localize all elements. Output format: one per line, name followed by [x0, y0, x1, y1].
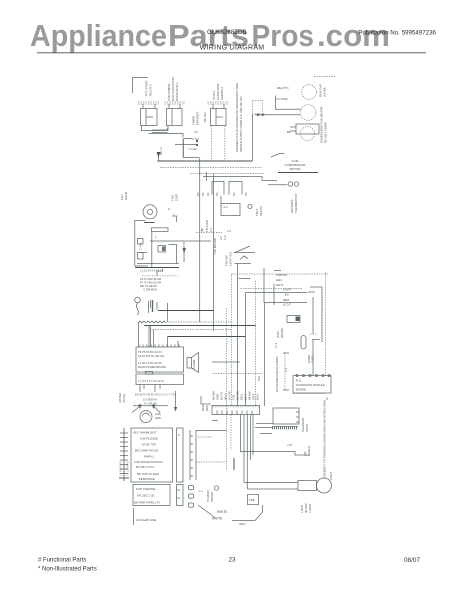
speaker label [192, 359, 196, 369]
svg-text:FOR TRE PRE: FOR TRE PRE [136, 487, 155, 491]
pin stubs [149, 300, 168, 322]
svg-text:Publication No. 5995497236: Publication No. 5995497236 [358, 30, 436, 37]
pin strip right [190, 430, 196, 480]
svg-text:C OM MON: C OM MON [143, 288, 157, 292]
svg-text:EXTENDED FRESH FOOD: EXTENDED FRESH FOOD [275, 357, 279, 393]
wire drop E2 [264, 303, 266, 407]
run capacitor circle [302, 85, 317, 100]
jumper h [312, 339, 320, 341]
wire stub h [260, 433, 272, 435]
label motor cols [200, 219, 213, 232]
J4 top hatch [213, 406, 260, 408]
svg-text:MER: MER [283, 298, 289, 302]
ext board bottom dashed [293, 393, 325, 395]
dispenser bell [140, 411, 152, 423]
right small box B [273, 408, 299, 424]
wire L1 drop [158, 156, 160, 161]
bus N4 solid [203, 177, 277, 181]
svg-text:23: 23 [228, 557, 236, 564]
label run capacitor [167, 77, 179, 101]
bus N1 [158, 160, 253, 162]
label dispenser board [276, 328, 284, 338]
fan blade right [154, 406, 161, 413]
dashed pin row [142, 275, 178, 277]
wire dashed drop D1 [231, 274, 233, 406]
wire right v1 [313, 287, 322, 376]
wire dashed drop D3 [226, 308, 228, 470]
J2 frame [274, 271, 281, 306]
switch blade SW1 [271, 154, 285, 158]
defrost heater bar [152, 228, 169, 232]
svg-text:DR TH SE NS: DR TH SE NS [140, 284, 157, 288]
node arrow L1 [157, 152, 161, 157]
svg-text:RD-3: RD-3 [240, 393, 244, 400]
lower connector pins [138, 379, 164, 383]
defrost heater labels [171, 194, 179, 201]
condenser fan motor M2 [301, 127, 315, 141]
svg-text:R LL: R LL [296, 379, 302, 383]
tick fan pins [290, 126, 296, 128]
svg-text:ATC BCC CE: ATC BCC CE [137, 494, 154, 498]
svg-text:STLR TOP: STLR TOP [142, 443, 156, 447]
svg-text:FF TH SE NS OR: FF TH SE NS OR [140, 281, 161, 285]
svg-text:2-2: 2-2 [219, 236, 223, 240]
svg-text:REL PTC: REL PTC [277, 86, 289, 90]
svg-text:LED -: LED - [276, 278, 283, 282]
bus N2 dashed [160, 167, 262, 169]
svg-text:0 4: 0 4 [227, 229, 231, 233]
junction tick [206, 172, 208, 181]
label right col long 1 [323, 400, 327, 478]
wire dashed drop D2 [255, 281, 257, 406]
board top pins [139, 345, 179, 348]
svg-text:WH-BK: WH-BK [248, 391, 252, 400]
svg-text:1 2 3 4 5 6 7 8 9 10 11: 1 2 3 4 5 6 7 8 9 10 11 [138, 379, 164, 383]
tick row dashes [196, 232, 222, 234]
svg-text:-o +: -o + [198, 489, 203, 493]
legend notes box [131, 428, 173, 482]
svg-text:COMPR #: COMPR # [220, 86, 224, 100]
wire corner right [201, 396, 211, 404]
bus N8 dashed [168, 321, 232, 323]
legend link dashed [198, 436, 212, 438]
svg-text:DEFROST: DEFROST [196, 111, 200, 125]
svg-text:OVERLOAD #: OVERLOAD # [175, 82, 179, 101]
short dark stub [233, 458, 235, 470]
svg-text:(M): (M) [200, 228, 204, 232]
legend link top [196, 430, 227, 432]
label compressor relay [145, 80, 153, 96]
svg-text:BU: BU [285, 293, 289, 297]
svg-text:BK-WH: BK-WH [212, 391, 216, 400]
wire corner to J2 [246, 292, 308, 294]
connector tick row [198, 193, 246, 197]
svg-text:Appliance: Appliance [30, 19, 167, 53]
svg-text:DEF/TS: DEF/TS [259, 206, 263, 216]
svg-text:L/GHT: L/GHT [329, 471, 333, 480]
wire ptc drop [252, 114, 254, 161]
svg-text:2: 2 [178, 433, 180, 437]
svg-text:ORN: ORN [216, 394, 220, 400]
svg-text:08/07: 08/07 [404, 557, 420, 564]
pin lugs [189, 486, 194, 508]
svg-text:BK FWR PWRL LTV: BK FWR PWRL LTV [134, 501, 160, 505]
bus N5 [137, 263, 179, 265]
svg-text:BU-5: BU-5 [256, 393, 260, 400]
svg-text:SW D: SW D [276, 283, 283, 287]
svg-text:RELAY #: RELAY # [149, 84, 153, 96]
svg-text:C-FLL: C-FLL [139, 242, 143, 250]
svg-text:VALVE: VALVE [305, 424, 309, 432]
label relay/ptc [276, 86, 289, 101]
svg-text:BK RD-2 COMP: BK RD-2 COMP [324, 122, 328, 143]
svg-text:MOTOR: MOTOR [290, 167, 301, 171]
label dispenser [155, 412, 161, 420]
bus N9 [144, 325, 256, 327]
svg-text:# Functional Parts: # Functional Parts [38, 558, 86, 564]
svg-text:PWR LL: PWR LL [144, 455, 155, 459]
header rule [37, 52, 426, 54]
J4 pins down [241, 415, 254, 490]
svg-text:WH-2: WH-2 [224, 393, 228, 400]
defrost timer contacts box [175, 139, 199, 158]
svg-text:P6 P5 K4 BU K2 P1: P6 P5 K4 BU K2 P1 [138, 350, 162, 354]
wire under auger [133, 405, 168, 407]
bus N4 [278, 172, 318, 174]
svg-text:VALVE: VALVE [122, 394, 126, 403]
svg-text:BOARD: BOARD [280, 328, 284, 338]
wire capacitor junction [149, 134, 184, 138]
svg-text:A/C EVAP LINE: A/C EVAP LINE [136, 518, 156, 522]
svg-text:+10: +10 [287, 443, 292, 447]
wire white run [232, 505, 263, 521]
label auger motor [143, 398, 157, 406]
svg-text:FZ FF DR TH SW GD: FZ FF DR TH SW GD [138, 354, 164, 358]
small box TRE [248, 495, 259, 505]
svg-text:L(C)/T: L(C)/T [283, 303, 291, 307]
svg-text:L/GHT: L/GHT [283, 288, 292, 292]
svg-text:2 4: 2 4 [224, 205, 228, 209]
ticks +10 [287, 443, 311, 456]
svg-text:S: S [168, 207, 170, 211]
wire h stub [212, 361, 240, 363]
svg-text:BU-WH: BU-WH [236, 391, 240, 400]
terminal dots [257, 114, 259, 116]
thermal cutoff box [158, 246, 166, 253]
label jazz board [213, 238, 217, 255]
label evap fan [120, 192, 128, 200]
svg-text:ALARM: ALARM [192, 359, 196, 369]
svg-text:WHITE: WHITE [212, 517, 222, 521]
J4 stub left [212, 420, 218, 422]
svg-text:PWR/SH: PWR/SH [276, 273, 287, 277]
board pin labels [138, 350, 166, 369]
wire below overload [144, 222, 155, 224]
condenser fan box [296, 124, 319, 134]
strip pin text [121, 461, 130, 476]
jumper loop 1 [212, 182, 224, 195]
svg-text:T-ERM: T-ERM [308, 504, 312, 513]
wire drop B [213, 174, 215, 332]
label start capacitor [212, 83, 224, 100]
label extension column [275, 357, 279, 393]
svg-text:OR-4: OR-4 [252, 393, 256, 400]
fan blade left [132, 406, 140, 413]
wire into box B [256, 423, 273, 425]
label to main board [198, 489, 214, 502]
bus N11 [168, 336, 246, 338]
svg-text:C-C: C-C [223, 235, 227, 240]
fuse F1 capsule [301, 336, 306, 350]
step bracket [157, 269, 163, 276]
box B pins [296, 412, 299, 422]
svg-text:2 2: 2 2 [194, 130, 198, 134]
label compressor column [319, 84, 327, 97]
ground wire diagonal [198, 505, 215, 518]
svg-text:L1.3: L1.3 [274, 342, 278, 348]
svg-text:L1 N2 C3 D4 S5 X6: L1 N2 C3 D4 S5 X6 [138, 361, 162, 365]
hatched strip [272, 427, 298, 430]
J2 dispenser rows [276, 273, 292, 307]
svg-text:FZ TH SE NS OR: FZ TH SE NS OR [140, 277, 161, 281]
light socket circle [135, 297, 141, 303]
speaker SP1 [187, 353, 199, 373]
label condenser fan [320, 107, 328, 143]
svg-text:9 0 1 2 3 4 5 6: 9 0 1 2 3 4 5 6 [128, 461, 130, 476]
wire left drop [133, 508, 135, 525]
small symbols right of overload [168, 207, 175, 216]
extension board text [296, 379, 325, 392]
wire dashed row 2 [241, 288, 304, 290]
label harness col [225, 252, 233, 266]
spacer box [177, 428, 184, 482]
dashed guard box defrost timer [183, 126, 225, 161]
svg-text:WHITE: WHITE [217, 510, 227, 514]
wire to compressor start [255, 114, 300, 116]
main board U1 [136, 347, 184, 372]
legend link bottom dashed [196, 461, 227, 463]
svg-text:BE CHNR TACNG: BE CHNR TACNG [135, 449, 159, 453]
svg-text:WIRING DIAGRAM: WIRING DIAGRAM [200, 45, 265, 52]
wire h mid [150, 240, 211, 242]
svg-text:GRN: GRN [239, 522, 245, 526]
svg-text:TSG BOARD: TSG BOARD [213, 238, 217, 255]
svg-text:BK FOR TH EES: BK FOR TH EES [137, 472, 159, 476]
wire run to lamp top [241, 452, 311, 456]
wire jumper right 1 [310, 286, 322, 288]
overload protector OL1 [143, 205, 157, 219]
svg-text:POWER SUPPLY CORD H-P LINE BK-: POWER SUPPLY CORD H-P LINE BK-WH [239, 96, 243, 152]
connector strip CN3 [208, 101, 229, 103]
bus N3 dashed [190, 173, 264, 175]
pin ticks below bus [140, 270, 164, 273]
dashed row [213, 373, 262, 375]
wire stub h [239, 278, 251, 280]
PTC starter box [253, 101, 263, 115]
label L1 column [159, 147, 163, 155]
defrost thermostat [288, 182, 293, 187]
svg-text:L T NH: L T NH [188, 147, 197, 151]
svg-text:SOLENOID: SOLENOID [301, 418, 305, 432]
defrost sensor node [248, 204, 252, 208]
squiggle wire [137, 303, 139, 315]
svg-text:BK-WH: BK-WH [203, 112, 207, 122]
board lower connector [136, 372, 184, 385]
wire right dashed v [325, 272, 327, 376]
label defrost thermostat [290, 193, 298, 213]
wire jumper right 2 [308, 291, 315, 293]
svg-text:CONNECT TO TERMINAL BOARD GROU: CONNECT TO TERMINAL BOARD GROUND SCREW G… [323, 400, 327, 478]
label def sensor [255, 206, 263, 216]
svg-text:+: + [173, 212, 175, 216]
svg-text:THERMOSTAT: THERMOSTAT [294, 193, 298, 213]
wire stub top [258, 376, 260, 381]
wire color labels [212, 391, 260, 400]
svg-text:BK-WH LTD 2: BK-WH LTD 2 [136, 465, 154, 469]
svg-text:FUSE: FUSE [311, 355, 315, 363]
capacitor C2 box [211, 104, 227, 126]
connector strip CN2 [165, 101, 186, 103]
wire dashed bus to dispenser [232, 273, 329, 275]
svg-text:F-F: F-F [209, 227, 213, 232]
svg-text:BU-GY: BU-GY [220, 391, 224, 400]
label heater col [182, 242, 186, 262]
label L1.3 [274, 342, 278, 348]
label lamp right [329, 471, 333, 480]
svg-text:B K W H O R B U R D Y L: B K W H O R B U R D Y L G Y T N [135, 393, 175, 397]
door switch SW2 [234, 246, 255, 264]
wire drop E [264, 268, 307, 303]
svg-text:SH/ELD: SH/ELD [307, 446, 311, 456]
label cluster upper [219, 229, 231, 240]
extension module board U2 [293, 374, 331, 393]
notes box 2 [133, 485, 170, 506]
svg-text:CAV PLEASE: CAV PLEASE [140, 437, 158, 441]
pins below board [140, 385, 160, 393]
label box B col [301, 418, 309, 432]
wire drop A [199, 158, 201, 323]
wire relay to capacitor [142, 126, 169, 131]
defrost thermostat wire [268, 184, 288, 186]
svg-text:FOR DOOR PACNGS: FOR DOOR PACNGS [134, 460, 162, 464]
bracket stub [172, 216, 177, 222]
wire sw drop [237, 264, 239, 407]
svg-text:1 2 3 4 5 6 7 8: 1 2 3 4 5 6 7 8 [121, 461, 123, 476]
bus N10 dashed [150, 329, 232, 331]
svg-text:L: L [155, 235, 157, 239]
indicator box [287, 316, 300, 323]
terminal strip TS1 [119, 428, 129, 481]
arrow mark [183, 248, 187, 253]
svg-text:* Non-Illustrated Parts: * Non-Illustrated Parts [38, 567, 97, 573]
wire to compressor run [276, 96, 302, 110]
svg-text:KEY: WH/BK-BOT: KEY: WH/BK-BOT [133, 431, 157, 435]
svg-text:BOX: BOX [205, 405, 209, 411]
svg-text:WH-BK: WH-BK [323, 87, 327, 97]
label mortor box [201, 404, 209, 411]
wire L1 feed corner [133, 78, 149, 94]
svg-text:SER: SER [155, 416, 161, 420]
svg-text:1.5: 1.5 [284, 368, 288, 372]
timer contact labels [188, 130, 199, 151]
bus N6 [135, 267, 179, 269]
svg-text:TAN: TAN [232, 395, 236, 400]
jumper loop 2 [229, 182, 242, 195]
lamp bulb [317, 478, 332, 493]
wire tco stub [140, 252, 147, 254]
brace bracket [284, 353, 286, 390]
compressor motor M1 [300, 105, 316, 121]
bus N7 [158, 310, 214, 312]
svg-text:TS TFRS: TS TFRS [276, 97, 288, 101]
lamp feed wires [244, 482, 298, 484]
watermark [30, 18, 390, 53]
spacer box 2 [177, 485, 184, 506]
connector strip CN1 [138, 101, 159, 103]
connector J4 [212, 406, 260, 415]
wire stub down [175, 391, 177, 411]
legend text [133, 431, 162, 482]
label lamp below [300, 503, 312, 513]
label connect to AC center tap [235, 82, 243, 152]
svg-text:BOARD: BOARD [296, 388, 306, 392]
timer sub box [221, 196, 240, 216]
J4 pin dashed [230, 415, 232, 451]
svg-text:TRE: TRE [249, 498, 255, 502]
svg-text:MAIN POWER BOARD: MAIN POWER BOARD [138, 365, 166, 369]
dashed service line [314, 76, 335, 78]
timer contact dots [196, 140, 198, 142]
thermistor text block [140, 277, 161, 292]
wire right drop [169, 245, 177, 264]
svg-text:EXTENSION MODULE: EXTENSION MODULE [296, 383, 325, 387]
svg-text:15SE: 15SE [175, 194, 179, 201]
svg-text:GY-1: GY-1 [244, 393, 248, 400]
relay K1 box [141, 104, 158, 126]
svg-text:BK: BK [287, 130, 291, 134]
ice maker housing [135, 221, 148, 267]
svg-text:PERMTACE: PERMTACE [139, 477, 155, 481]
wire heater drop [151, 231, 153, 267]
lamp socket [298, 481, 317, 491]
svg-text:GLHS268ZDB: GLHS268ZDB [207, 29, 247, 36]
bus N8 hatch head [138, 321, 166, 323]
label side compressor motor [285, 159, 306, 171]
label fuse [307, 355, 315, 363]
svg-text:LIGHT SW: LIGHT SW [229, 252, 233, 266]
label ice maker col [139, 242, 143, 250]
svg-text:GY-OR: GY-OR [228, 391, 232, 400]
svg-text:C NC: C NC [192, 137, 199, 141]
svg-text:BOARD: BOARD [210, 492, 214, 502]
svg-text:GRHE: GRHE [124, 192, 128, 200]
jumper h dashes [310, 333, 317, 335]
wire into timer [152, 128, 168, 130]
label terminal codes [192, 111, 208, 125]
board feed drops [139, 322, 178, 347]
capacitor C1 box [167, 104, 183, 126]
label water valve [118, 393, 126, 403]
